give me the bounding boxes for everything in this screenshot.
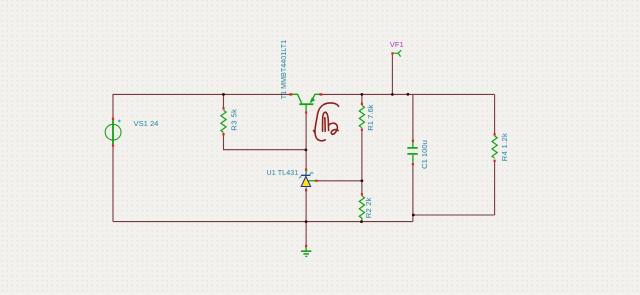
- wire R4 top lead: [494, 94, 496, 133]
- wire U1 reference to R1/R2 node: [317, 180, 362, 182]
- pin mark VS1 +: [112, 118, 114, 120]
- wire R2 top lead: [361, 181, 363, 194]
- pin mark R1 top: [361, 103, 363, 105]
- pin mark R4 bottom: [494, 160, 496, 162]
- wire mid rail from C1 to R4 bottom: [413, 214, 495, 216]
- pin mark C1 bottom: [412, 163, 414, 165]
- junction node at C1 mid rail: [412, 214, 415, 217]
- pin mark VF1 probe: [391, 52, 393, 54]
- junction node at R3 top: [222, 93, 225, 96]
- wire VS1 bottom lead down to bottom rail: [112, 146, 114, 222]
- wire top rail left from VS1 corner to T1 collector: [113, 94, 291, 118]
- wire R1 top stub: [361, 94, 363, 103]
- pin mark T1 base: [305, 111, 307, 113]
- svg-text:R1 7.6k: R1 7.6k: [366, 104, 375, 130]
- wire R4 bottom lead: [494, 161, 496, 215]
- pin mark R4 top: [494, 133, 496, 135]
- wire C1 top lead: [412, 94, 414, 140]
- svg-text:U1 TL431: U1 TL431: [267, 169, 299, 177]
- pin mark T1 collector: [289, 93, 292, 95]
- pin mark R3 top: [222, 107, 224, 109]
- resistor R2: [359, 196, 364, 221]
- pin mark ground: [305, 245, 307, 247]
- wire VF1 probe drop: [391, 55, 393, 95]
- voltage source VS1: [105, 120, 121, 144]
- svg-text:C1 100u: C1 100u: [420, 140, 429, 169]
- capacitor C1: [407, 142, 417, 163]
- wire R1 bottom lead: [361, 130, 363, 181]
- wire T1 base vertical down to U1 cathode: [305, 113, 307, 169]
- pin mark C1 top: [412, 140, 414, 142]
- junction node at R1 top: [361, 93, 364, 96]
- pin mark R3 bottom: [222, 133, 224, 135]
- pin mark U1 reference: [315, 180, 317, 182]
- pin mark VS1 -: [112, 144, 114, 146]
- wire bottom ground rail: [113, 221, 413, 223]
- pin mark U1 cathode: [305, 169, 307, 171]
- svg-text:R2 2k: R2 2k: [364, 197, 373, 218]
- node VF1 voltage probe: [393, 51, 401, 57]
- junction node near C1 top: [407, 93, 410, 96]
- svg-text:T1 MMBT4401LT1: T1 MMBT4401LT1: [279, 40, 288, 99]
- wire top rail right from T1 emitter to R4 corner: [321, 93, 495, 95]
- wire U1 anode down to bottom rail and ground: [305, 191, 307, 246]
- resistor R4: [492, 136, 497, 158]
- svg-text:VF1: VF1: [390, 40, 404, 49]
- wire C1 bottom lead to bottom rail: [412, 165, 414, 222]
- red annotation scribble: [314, 103, 339, 141]
- ground: [301, 247, 311, 256]
- pin mark T1 emitter: [319, 93, 322, 95]
- junction node at ground rail: [305, 220, 308, 223]
- resistor R3: [221, 110, 226, 132]
- pin mark U1 anode: [305, 189, 307, 191]
- pin mark R2 top: [361, 193, 363, 195]
- svg-text:R3 5k: R3 5k: [229, 109, 238, 131]
- svg-text:VS1 24: VS1 24: [134, 119, 159, 128]
- wire R3 bottom lead and horizontal to base node: [224, 135, 306, 150]
- junction node at base / R3: [305, 149, 308, 152]
- junction node at R1/R2/ref: [361, 179, 364, 182]
- wire R3 top stub: [223, 94, 225, 108]
- junction node at R2 bottom: [360, 220, 363, 223]
- svg-text:R4 1.2k: R4 1.2k: [500, 133, 509, 161]
- junction node at VF1: [391, 93, 394, 96]
- VS1 plus polarity mark: [118, 120, 121, 123]
- pin mark R1 bottom: [361, 128, 363, 130]
- resistor R1: [359, 105, 364, 127]
- op-amp U1 TL431 shunt regulator: [299, 171, 317, 190]
- transistor T1: [291, 94, 321, 111]
